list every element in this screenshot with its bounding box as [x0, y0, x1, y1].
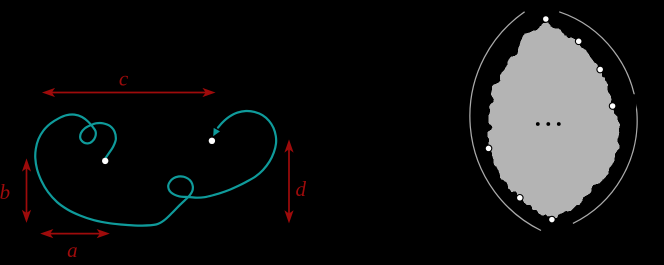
svg-text:a: a [67, 238, 78, 262]
svg-text:d: d [296, 177, 307, 201]
svg-text:c: c [119, 67, 129, 91]
svg-text:b: b [0, 180, 10, 204]
